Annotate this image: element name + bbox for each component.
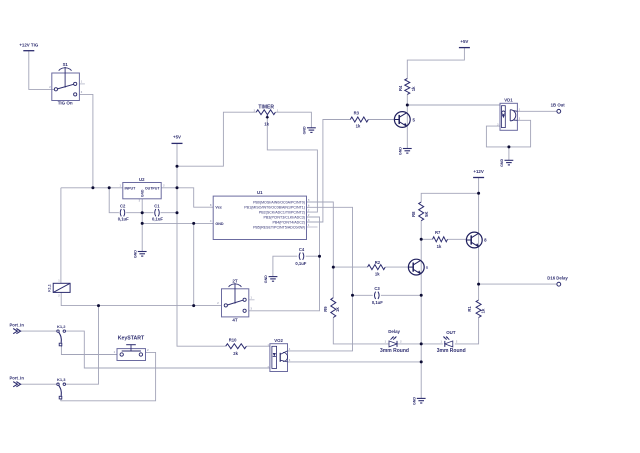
svg-text:OUTPUT: OUTPUT: [145, 186, 161, 190]
svg-text:+5V: +5V: [460, 39, 468, 44]
svg-text:1k: 1k: [356, 123, 361, 128]
svg-text:4T: 4T: [232, 317, 238, 322]
svg-text:R9: R9: [323, 306, 328, 312]
svg-text:5K: 5K: [424, 212, 429, 217]
svg-text:KeySTART: KeySTART: [118, 335, 145, 341]
svg-text:GND: GND: [264, 275, 268, 283]
svg-text:Vcc: Vcc: [215, 206, 222, 210]
svg-text:GND: GND: [133, 250, 137, 258]
svg-text:PB3(PCINT3/CLKI/ADC3): PB3(PCINT3/CLKI/ADC3): [263, 215, 305, 219]
svg-text:U1: U1: [257, 190, 263, 195]
svg-text:INPUT: INPUT: [125, 186, 137, 190]
svg-text:PB1(MISO/INT0/OC0B/AIN1/PCINT1: PB1(MISO/INT0/OC0B/AIN1/PCINT1): [244, 206, 305, 210]
svg-text:PB5(RESET/PCINT5/ADC0/dW): PB5(RESET/PCINT5/ADC0/dW): [253, 225, 305, 229]
svg-text:1k: 1k: [264, 121, 269, 126]
svg-text:TIG On: TIG On: [58, 101, 73, 106]
svg-text:PB4(PCINT4/ADC2): PB4(PCINT4/ADC2): [272, 220, 305, 224]
svg-text:R8: R8: [411, 211, 416, 217]
svg-text:+12V: +12V: [473, 169, 483, 174]
svg-text:1B Out: 1B Out: [551, 102, 566, 107]
svg-text:D16 Delay: D16 Delay: [547, 275, 568, 280]
svg-text:C4: C4: [299, 247, 305, 252]
svg-text:Port_In: Port_In: [9, 323, 24, 328]
svg-text:R7: R7: [435, 230, 441, 235]
svg-text:1k: 1k: [375, 272, 380, 277]
svg-text:C2: C2: [120, 203, 126, 208]
svg-text:1k: 1k: [437, 244, 442, 249]
svg-text:PB2(SCK/ADC1/T0/PCINT2): PB2(SCK/ADC1/T0/PCINT2): [259, 211, 305, 215]
svg-text:K1,3: K1,3: [57, 377, 66, 382]
svg-text:Port_In: Port_In: [9, 376, 24, 381]
svg-text:R4: R4: [398, 85, 403, 91]
svg-text:+5V: +5V: [173, 135, 181, 140]
svg-text:VD1: VD1: [504, 97, 513, 102]
svg-text:TIMER: TIMER: [258, 105, 274, 111]
svg-text:K1,1: K1,1: [47, 284, 51, 292]
svg-text:C1: C1: [154, 203, 160, 208]
svg-text:0,1uF: 0,1uF: [295, 261, 306, 266]
svg-text:GND: GND: [412, 397, 416, 405]
svg-text:0,1uF: 0,1uF: [372, 300, 383, 305]
svg-text:C3: C3: [374, 286, 380, 291]
svg-text:R10: R10: [229, 337, 237, 342]
svg-text:+12V TIG: +12V TIG: [19, 42, 38, 47]
svg-text:GND: GND: [215, 222, 224, 226]
svg-text:GND: GND: [303, 126, 307, 134]
svg-text:1k: 1k: [411, 86, 416, 91]
svg-text:PB0(MOSI/AIN0/OC0A/PCINT0): PB0(MOSI/AIN0/OC0A/PCINT0): [253, 200, 305, 204]
svg-text:R1: R1: [467, 306, 472, 312]
svg-text:Delay: Delay: [388, 329, 400, 334]
svg-text:GND: GND: [500, 159, 504, 167]
svg-text:3mm Round: 3mm Round: [380, 348, 409, 354]
svg-text:K1,2: K1,2: [57, 324, 66, 329]
svg-text:OUT: OUT: [446, 330, 456, 335]
svg-text:R2: R2: [375, 260, 381, 265]
svg-text:0,1uF: 0,1uF: [152, 217, 163, 222]
svg-text:2k: 2k: [233, 351, 238, 356]
svg-text:S1: S1: [63, 62, 69, 67]
svg-text:VO2: VO2: [274, 338, 283, 343]
svg-text:2T: 2T: [232, 278, 238, 283]
svg-text:GND: GND: [399, 147, 403, 155]
svg-text:GND: GND: [140, 189, 144, 197]
svg-text:0,1uF: 0,1uF: [118, 217, 129, 222]
svg-text:U2: U2: [139, 177, 145, 182]
svg-text:1k: 1k: [335, 307, 340, 312]
svg-text:R3: R3: [354, 110, 360, 115]
svg-text:3mm Round: 3mm Round: [437, 348, 466, 354]
svg-text:1k: 1k: [481, 308, 486, 313]
